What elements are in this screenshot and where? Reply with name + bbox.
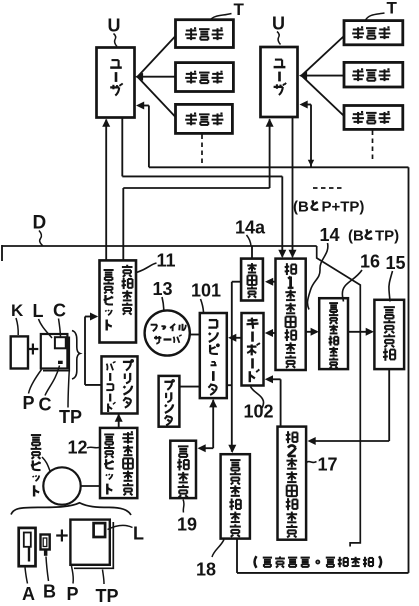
wire file server to computer xyxy=(190,334,200,336)
box B vial xyxy=(41,535,50,556)
svg-text:14: 14 xyxy=(320,225,340,245)
wire computer to reporter stub xyxy=(227,384,232,386)
box 15 inspection organization xyxy=(374,300,404,369)
box 14a reader xyxy=(241,259,263,301)
label 13 xyxy=(153,279,173,310)
label TP xyxy=(96,570,119,606)
box P package xyxy=(70,520,109,565)
label P (kit) xyxy=(23,370,42,414)
box L container xyxy=(41,334,68,369)
svg-text:C: C xyxy=(53,301,66,321)
box examinee R2 xyxy=(344,62,403,87)
plus sign kit xyxy=(28,344,39,355)
svg-text:U: U xyxy=(108,16,121,36)
svg-text:TP: TP xyxy=(59,407,82,427)
box L small on package xyxy=(94,523,106,537)
box right user U xyxy=(261,47,298,117)
box printer xyxy=(159,376,180,427)
label 16 xyxy=(342,252,380,302)
boundary D right edge xyxy=(317,246,361,547)
svg-text:14a: 14a xyxy=(235,218,266,238)
label C (cap) xyxy=(53,301,66,337)
wire report loop right edge xyxy=(408,167,410,573)
wire right user to recorder1 xyxy=(289,118,297,259)
svg-text:P: P xyxy=(67,584,79,604)
box examinee L1 xyxy=(176,20,234,48)
svg-text:C: C xyxy=(39,395,52,415)
box K xyxy=(11,336,28,368)
label T (left group) xyxy=(210,0,245,21)
svg-text:L: L xyxy=(33,301,44,321)
wire 14a reader to bus xyxy=(251,246,253,259)
box 19 judge means xyxy=(170,441,196,498)
box A swab xyxy=(19,528,36,566)
box 14 first information recorder xyxy=(276,259,306,370)
mark TP small xyxy=(58,361,63,364)
svg-text:U: U xyxy=(272,14,285,34)
svg-text:A: A xyxy=(22,584,35,604)
svg-text:17: 17 xyxy=(318,455,338,475)
label 14 (B and TP) xyxy=(320,225,400,245)
wire recorder2 to keyboard xyxy=(265,375,281,426)
label L xyxy=(33,301,53,338)
wire report loop top xyxy=(149,166,409,168)
circle 13 file server xyxy=(145,310,190,355)
label T (right group) xyxy=(366,0,398,20)
box 16 inspection request means xyxy=(319,298,348,369)
label 15 xyxy=(386,253,406,302)
box 11 supply means / test set xyxy=(100,260,137,342)
box 101 computer xyxy=(200,313,227,398)
svg-text:K: K xyxy=(11,301,24,320)
box P shadow xyxy=(74,522,113,568)
label 102 xyxy=(244,387,274,422)
svg-text:T: T xyxy=(387,0,398,18)
box C small xyxy=(55,337,66,348)
circle test set xyxy=(43,467,80,504)
label (B and P+TP) xyxy=(293,199,364,216)
svg-text:15: 15 xyxy=(386,253,406,273)
label B xyxy=(43,557,56,602)
label 11 xyxy=(137,251,176,273)
svg-text:(B: (B xyxy=(293,199,309,216)
box examinee L2 xyxy=(176,63,234,92)
wire recorder1 to keyboard xyxy=(265,329,276,337)
svg-text:P: P xyxy=(23,393,35,413)
wire requester to organization xyxy=(348,328,374,336)
svg-text:13: 13 xyxy=(153,279,173,299)
svg-text:TP: TP xyxy=(96,586,119,606)
wire keyboard to computer xyxy=(228,334,241,342)
label K xyxy=(11,301,24,335)
dashed continuation marks xyxy=(313,187,343,189)
label 18 xyxy=(196,540,224,580)
label U (right user) xyxy=(272,14,285,45)
label result report xyxy=(255,556,382,568)
dashed line below examinee L3 xyxy=(201,135,203,165)
box left user U xyxy=(97,48,135,118)
svg-text:T: T xyxy=(234,0,245,19)
label 17 xyxy=(307,455,338,475)
svg-text:12: 12 xyxy=(68,438,88,458)
svg-text:11: 11 xyxy=(157,251,176,271)
box examinee R3 xyxy=(344,106,403,130)
label 12 xyxy=(68,438,100,458)
wire report loop bottom xyxy=(237,539,409,573)
box 17 second information recorder xyxy=(278,427,307,540)
box 102 keyboard xyxy=(242,313,264,386)
wire computer to judge xyxy=(198,399,218,452)
wire circle to box12 xyxy=(81,485,100,487)
svg-text:102: 102 xyxy=(244,402,274,422)
svg-text:16: 16 xyxy=(360,252,380,272)
label A xyxy=(22,568,35,605)
svg-text:P+TP): P+TP) xyxy=(322,199,365,216)
wire kit to box11 xyxy=(85,313,102,385)
label 14a xyxy=(235,218,266,247)
brace bottom group xyxy=(11,503,131,515)
label U (left user) xyxy=(108,16,121,47)
label L (package) xyxy=(108,524,145,544)
label 19 xyxy=(177,500,197,535)
svg-text:19: 19 xyxy=(177,515,197,535)
svg-text:L: L xyxy=(133,524,144,544)
box 12 individualization means / test set xyxy=(100,428,137,498)
brace kit xyxy=(72,331,80,380)
wire organization to recorder2 xyxy=(308,369,390,445)
box L shadow xyxy=(43,337,69,371)
wire left user to recorder1 xyxy=(122,118,286,259)
leader 14 to recorder1 xyxy=(307,243,327,310)
wire reader down to reporter xyxy=(228,282,241,453)
plus sign bottom xyxy=(56,530,67,542)
svg-text:B: B xyxy=(43,582,56,602)
box examinee L3 xyxy=(176,104,233,133)
svg-text:18: 18 xyxy=(196,560,216,580)
wire supply to left user xyxy=(102,119,110,261)
wire report into right user xyxy=(300,101,315,167)
label D xyxy=(33,213,47,247)
label TP (kit) xyxy=(59,372,82,428)
svg-text:TP): TP) xyxy=(375,228,399,245)
boundary D top edge xyxy=(2,245,317,261)
wire recorder1 to reader xyxy=(265,278,276,286)
label test set (circle) xyxy=(31,435,50,496)
label 101 xyxy=(191,281,221,313)
svg-text:(B: (B xyxy=(348,228,364,245)
wire printer to computer xyxy=(179,386,199,388)
wire report into left user xyxy=(136,102,149,168)
dashed line below examinee R3 xyxy=(372,131,374,162)
wire box12 to barcode printer xyxy=(115,414,123,428)
label P xyxy=(67,566,79,604)
svg-text:101: 101 xyxy=(191,281,221,301)
wire left user to examinees fan xyxy=(135,36,176,117)
box 18 inspection report means xyxy=(221,454,250,538)
wire recorder1 to requester xyxy=(306,328,319,336)
wire right user to examinees fan xyxy=(299,36,344,116)
wire supply to right user xyxy=(123,119,273,261)
label C2 (kit) xyxy=(39,366,60,415)
box examinee R1 xyxy=(344,21,403,45)
box printer/barcode xyxy=(102,356,138,413)
